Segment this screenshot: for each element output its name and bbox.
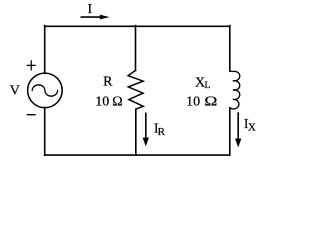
wire left top (source top to top-left corner) <box>44 26 46 74</box>
wire middle branch top <box>135 26 137 71</box>
current arrow IX <box>237 113 239 139</box>
svg-text:10Ω: 10Ω <box>95 95 122 110</box>
svg-text:R: R <box>103 75 113 90</box>
polarity minus <box>27 114 35 116</box>
wire left bottom (source bottom to bottom-left corner) <box>44 107 46 155</box>
inductor XL (coil) <box>230 71 240 109</box>
svg-text:XL: XL <box>195 75 211 91</box>
svg-text:10Ω: 10Ω <box>186 95 217 110</box>
svg-text:IX: IX <box>244 117 256 134</box>
svg-text:V: V <box>10 84 20 99</box>
voltage source sine wave <box>32 85 57 96</box>
resistor R (zigzag) <box>128 70 143 109</box>
wire right top <box>229 26 231 71</box>
svg-text:IR: IR <box>154 122 166 138</box>
wire top <box>45 25 230 27</box>
svg-text:I: I <box>88 2 93 17</box>
wire middle branch bottom <box>135 109 137 155</box>
current arrow I (top) <box>81 16 101 18</box>
wire bottom <box>45 154 230 156</box>
wire right bottom <box>229 108 231 155</box>
voltage source V (circle) <box>28 73 63 108</box>
polarity plus <box>27 61 35 70</box>
current arrow IR <box>145 113 147 138</box>
